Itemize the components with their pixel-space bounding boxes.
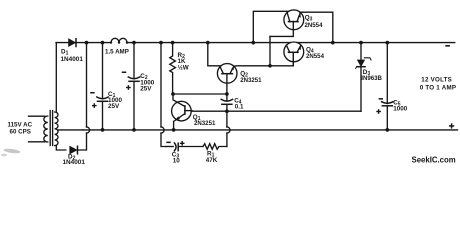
transistor Q2 2N3251 [217,64,237,94]
wire Q3 collector loop to rail [253,11,288,42]
diode D1 [69,39,76,47]
svg-text:IN963B: IN963B [361,75,382,82]
wire Q1 collector to Q2 base [173,93,227,95]
wire Q3 emitter loop to rail [300,12,333,42]
resistor R2 [170,43,176,94]
transistor Q4 2N554 [284,42,304,66]
resistor R1 [203,144,227,150]
hop of D2 wire over bottom rail [87,127,90,133]
svg-text:10: 10 [173,158,181,165]
svg-text:115V AC: 115V AC [8,121,33,128]
transistor Q1 2N3251 [172,94,192,130]
label Q4 2N554 [306,46,325,60]
watermark SeekIC.com [412,155,456,164]
label C4 0.1 [234,98,244,111]
svg-text:0 TO 1 AMP: 0 TO 1 AMP [420,85,457,92]
label R2 1K 1/2W [178,52,189,71]
label C3 polarity and value [166,141,184,165]
svg-text:25V: 25V [108,103,120,110]
diode D2 [70,146,78,154]
label D1 1N4001 [61,49,84,63]
label D2 1N4001 [63,153,86,166]
wire secondary bottom lead [56,146,66,151]
wire C3 branch from top rail with hop over bottom rail [161,43,166,147]
transformer T1 core [50,111,52,146]
label C1 polarity and value [90,91,122,110]
hop of R1 branch wire over bottom rail [227,127,230,133]
svg-text:47K: 47K [206,157,218,164]
svg-text:25V: 25V [140,86,152,93]
label Q2 2N3251 [240,70,262,83]
junction dots bottom rail [101,128,390,132]
svg-text:½W: ½W [178,63,189,71]
svg-text:1.5 AMP: 1.5 AMP [105,49,129,56]
junction dots top rail [85,41,390,45]
fuse arc feet dots [110,41,128,43]
wire secondary top lead [55,43,57,112]
svg-text:SeekIC.com: SeekIC.com [412,155,456,164]
wire bottom rail [83,129,458,131]
label 115V AC 60 CPS [8,121,33,135]
svg-text:1000: 1000 [393,106,408,113]
svg-text:0.1: 0.1 [235,104,244,111]
svg-text:2N3251: 2N3251 [240,77,262,84]
label Q3 2N554 [305,15,324,29]
label R1 47K [206,150,218,163]
svg-text:12 VOLTS: 12 VOLTS [421,77,452,84]
wire top rail right segment [297,42,455,44]
svg-text:2N554: 2N554 [305,22,324,29]
transformer T1 secondary winding [55,112,58,146]
capacitor C3 [166,143,203,151]
svg-text:60 CPS: 60 CPS [10,128,31,135]
junction dots other [171,64,272,113]
output plus terminal [449,123,454,128]
label 12 VOLTS 0 TO 1 AMP [420,77,457,92]
fuse label 1.5 AMP [105,49,129,56]
capacitor C4 [221,94,232,111]
label C5 polarity and value [376,98,407,114]
scan smudge bottom left [1,148,21,157]
wire top rail left segment [56,42,291,44]
capacitor C1 [97,43,108,130]
svg-text:2N554: 2N554 [306,53,325,60]
hop of C3 branch wire over bottom rail [161,127,164,133]
output minus terminal [445,45,450,47]
transformer T1 primary bottom lead [29,141,45,143]
zener diode D3 1N963B [356,43,371,112]
svg-text:1N4001: 1N4001 [61,56,84,63]
label C2 polarity and value [122,72,155,93]
wire R1 branch vertical with hop over bottom rail [226,111,228,146]
capacitor C5 [382,43,393,130]
wire secondary center tap [58,129,83,131]
transformer T1 primary winding [44,116,48,142]
wire Q2 emitter to Q3 Q4 base tie [234,52,293,66]
wire Q1 base reference line to D3 [192,110,361,112]
transistor Q3 2N554 [270,10,304,37]
wire D2 cathode to top rail [78,43,87,150]
label Q1 2N3251 [193,114,216,127]
svg-text:1N4001: 1N4001 [63,159,86,166]
capacitor C2 [128,43,139,130]
wire Q3 base tie vertical crossing top rail [269,36,271,65]
wire Q2 collector to top rail [208,43,220,66]
transformer T1 primary top lead [29,115,45,117]
fuse F1 [111,38,127,42]
label D3 1N963B [361,69,382,82]
svg-text:2N3251: 2N3251 [194,120,216,127]
